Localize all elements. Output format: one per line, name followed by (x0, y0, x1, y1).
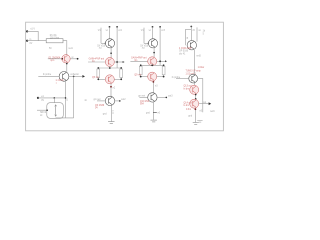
svg-text:0.3m: 0.3m (186, 109, 191, 111)
ground col4 a (197, 119, 202, 121)
svg-text:out: out (203, 101, 207, 104)
wire P2 to R1 (27, 40, 46, 42)
port out1 (82, 75, 85, 78)
svg-text:GAIN=PNP ant: GAIN=PNP ant (131, 57, 147, 60)
svg-text:net9: net9 (210, 110, 215, 113)
svg-text:GAIN=PNP ant: GAIN=PNP ant (89, 57, 105, 60)
port P3 (37, 96, 45, 102)
svg-text:.7V: .7V (141, 48, 145, 50)
svg-text:100 Ohm: 100 Ohm (50, 38, 60, 40)
wire Q12 right and down (198, 79, 203, 113)
transistor Q5 (red) (105, 75, 114, 84)
svg-text:net5: net5 (196, 55, 201, 58)
wire P1 to corner (27, 31, 38, 40)
svg-text:gm set: gm set (94, 98, 101, 101)
wire Q14 right to port (199, 103, 209, 105)
svg-text:Q1 2N3904: Q1 2N3904 (48, 57, 60, 59)
transistor Q1 (red) (48, 55, 70, 63)
resistor R3 (right flank) (120, 69, 123, 78)
rail through Q9 (141, 76, 148, 78)
transistor Q4 (red) (105, 58, 114, 67)
svg-text:gm set: gm set (138, 95, 145, 98)
svg-text:.7V: .7V (98, 48, 102, 50)
wire Q7 emitter to Q8 (153, 48, 155, 57)
port P1 (26, 29, 35, 33)
transistor Q7 (black) (148, 39, 157, 48)
ground col3 (151, 119, 157, 121)
flank link (98, 67, 121, 69)
wire Q12 emitter (194, 83, 196, 85)
svg-text:hi drv: hi drv (184, 87, 190, 90)
resistor R5 (right flank) (162, 66, 165, 75)
svg-text:dio 41: dio 41 (179, 53, 186, 55)
port P2 (26, 39, 33, 45)
ground col2 (108, 121, 114, 123)
transistor Q9 (red) (148, 72, 157, 81)
svg-text:Q14 out: Q14 out (184, 101, 193, 104)
svg-text:4 OCR AMP: 4 OCR AMP (179, 47, 192, 50)
supply stems col4 (190, 26, 192, 28)
flank link col3 (141, 64, 164, 66)
resistor R2 (left flank) (97, 69, 100, 78)
svg-text:Q13 out: Q13 out (184, 85, 193, 88)
transistor Q10 (black) (148, 93, 157, 102)
wire Q2 emitter down (65, 81, 67, 118)
box left pin wire (37, 109, 47, 111)
transistor Q13 (red) (190, 85, 199, 94)
svg-text:ic.467m: ic.467m (56, 80, 64, 82)
transistor Q3 (black) (105, 39, 114, 48)
port out (209, 102, 212, 105)
junction right L (73, 76, 75, 78)
transistor Q2 (black) (43, 72, 69, 86)
wire Q1 base left / right stub (70, 58, 77, 60)
svg-text:0V: 0V (41, 100, 44, 102)
wire Q5 emitter down (110, 84, 112, 97)
transistor Q8 (red) (148, 57, 157, 66)
wire Q13 to Q14 (195, 94, 197, 99)
wire Q6 right (115, 100, 120, 102)
stub to source box top (53, 98, 55, 103)
wire L down from Q2 right (73, 76, 75, 118)
supply stems col2 (109, 26, 111, 28)
svg-text:1.02ar: 1.02ar (198, 66, 205, 69)
supply stems col3 (152, 26, 154, 28)
svg-text:out3: out3 (168, 95, 173, 98)
resistor R1 (46, 34, 63, 50)
wire Q2 collector right to port (69, 75, 83, 77)
wire Q12 base (176, 78, 189, 80)
wire Q4 emitter (109, 67, 111, 69)
box bottom wire (56, 117, 74, 119)
svg-text:out2: out2 (121, 98, 126, 101)
wire Q8 base left (130, 60, 147, 62)
wire Q4 base left (88, 61, 105, 63)
wire Q9 emitter down (152, 81, 154, 93)
transistor Q6 (black) (105, 96, 114, 105)
wire Q6 emitter down (110, 106, 112, 122)
wire Q10 emitter down (153, 102, 155, 120)
rail through Q5 (98, 78, 105, 80)
ground col4 b (193, 122, 199, 124)
wire Q6 base (97, 100, 105, 102)
source box V2 (47, 100, 69, 119)
wire Q10 right (157, 96, 166, 98)
transistor Q11 (black, diode-connected) (187, 41, 196, 50)
wire Q8 right (157, 60, 166, 62)
svg-text:0V: 0V (30, 43, 33, 45)
wire R1 to T1 (63, 41, 67, 55)
transistor Q12 (black) (189, 74, 198, 83)
svg-text:TUNE UP amp: TUNE UP amp (186, 71, 202, 73)
svg-text:net1: net1 (68, 47, 73, 50)
svg-text:collector: collector (70, 73, 79, 76)
wire Q10 base (139, 96, 147, 98)
schematic frame (26, 22, 224, 131)
wire Q1 emitter down (66, 63, 68, 72)
wire Q8 emitter (151, 64, 153, 67)
wire Q4 right (114, 61, 123, 63)
svg-text:ib probe: ib probe (43, 73, 52, 76)
svg-text:OP 5166: OP 5166 (179, 51, 189, 53)
svg-text:lo drv: lo drv (184, 104, 190, 107)
wire Q11 emitter down (193, 50, 195, 74)
wire Q3 emitter to Q4 (110, 48, 112, 58)
resistor R4 (left flank) (139, 66, 142, 75)
wire Q14 emitter down (195, 108, 197, 122)
wire stem to base Q7 (144, 42, 149, 44)
wire Q2 base (38, 75, 59, 77)
svg-text:n1 V: n1 V (30, 29, 35, 31)
wire stem to base Q3 (101, 42, 106, 44)
transistor Q14 (red) (190, 99, 199, 108)
wire P3 to emitter (38, 97, 66, 99)
